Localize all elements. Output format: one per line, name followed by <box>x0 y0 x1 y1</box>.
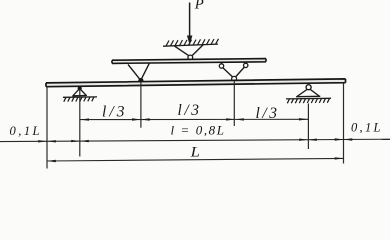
arrows on chain line <box>38 138 352 142</box>
right support ground line <box>286 97 331 100</box>
dimension line l/3 <box>80 118 308 120</box>
rocker circle left <box>219 64 223 68</box>
ceiling hatch strokes <box>166 39 219 46</box>
svg-text:l/3: l/3 <box>102 104 125 121</box>
force arrow P <box>187 3 192 45</box>
right support circle <box>306 85 311 90</box>
svg-text:0,1L: 0,1L <box>351 121 381 135</box>
ceiling hatch line <box>163 44 218 46</box>
arrows on L line <box>47 157 344 162</box>
left support ground hatch <box>64 97 94 102</box>
extension line beam left end <box>46 86 48 169</box>
right support ground hatch <box>287 98 329 103</box>
extension line left support <box>79 91 81 157</box>
svg-text:l = 0,8L: l = 0,8L <box>171 123 225 138</box>
dimension line L <box>47 158 344 161</box>
svg-text:P: P <box>194 0 204 13</box>
svg-text:L: L <box>190 144 200 160</box>
svg-text:l/3: l/3 <box>256 105 278 122</box>
lever beam <box>112 59 266 64</box>
lever support pin (left) <box>138 78 143 83</box>
svg-text:l/3: l/3 <box>178 102 200 119</box>
right support triangle <box>296 89 320 96</box>
extension line right support <box>307 104 309 150</box>
rocker legs <box>223 67 244 77</box>
rocker stem left <box>221 63 223 64</box>
left support pin <box>78 86 82 90</box>
lever support V (left) <box>128 63 150 80</box>
rocker stem right <box>245 62 247 65</box>
lever beam fill <box>112 59 266 64</box>
left support ground line <box>63 96 97 98</box>
extension line beam right end <box>343 83 345 164</box>
main beam <box>46 79 346 87</box>
hanger pin circle <box>188 55 193 60</box>
extension line lever V <box>140 83 142 128</box>
rocker bottom circle <box>232 76 237 81</box>
extension line rocker <box>233 81 235 126</box>
arrows on l/3 line <box>80 118 308 121</box>
main beam fill <box>46 79 346 87</box>
rocker circle right <box>244 63 248 67</box>
left support triangle <box>72 88 87 95</box>
svg-text:0,1L: 0,1L <box>10 124 40 138</box>
chain dimension line (0,1L / l=0,8L / 0,1L) <box>0 139 390 141</box>
hanger triangle <box>174 45 203 56</box>
